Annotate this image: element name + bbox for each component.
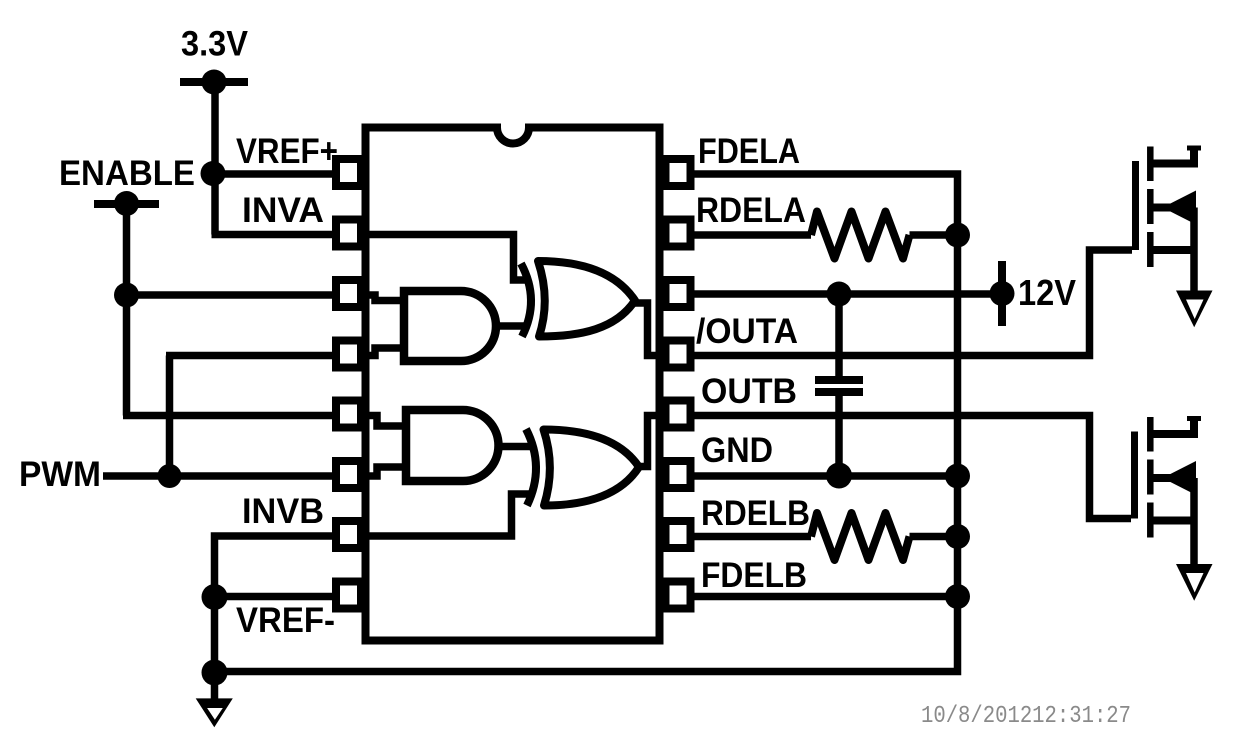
- pin 9 FDELB: [666, 582, 691, 609]
- resistor RDELB: [811, 513, 910, 560]
- wire FDELB row: [693, 593, 958, 601]
- svg-text:INVA: INVA: [242, 191, 324, 230]
- capacitor C1 top stem: [835, 294, 843, 376]
- transistor Q1 drain stub: [1150, 147, 1194, 164]
- transistor Q2 gate bar: [1131, 432, 1138, 519]
- node GND bus junction: [945, 464, 970, 489]
- pin 4: [336, 341, 361, 368]
- pin 14 12V: [666, 280, 691, 307]
- pin 15 RDELA: [666, 220, 691, 247]
- wire INVB to left rail: [215, 536, 334, 600]
- node 3.3V flag dot: [202, 70, 227, 95]
- 3.3V power flag bar: [180, 78, 248, 86]
- pin 7 INVB: [336, 521, 361, 548]
- transistor Q2 source stub: [1150, 517, 1198, 525]
- svg-text:FDELA: FDELA: [698, 132, 800, 171]
- pin 8 VREF-: [336, 582, 361, 609]
- resistor RDELA: [811, 212, 910, 259]
- node RDELA bus junction: [945, 223, 970, 248]
- svg-text:VREF-: VREF-: [236, 601, 335, 640]
- pin 6: [336, 461, 361, 488]
- wire GND row: [693, 472, 958, 480]
- wire 3.3V stem to VREF+ and INVA: [213, 82, 333, 235]
- node 12V flag dot: [990, 281, 1015, 306]
- wire pin6 jog to AND-B input2: [362, 467, 404, 476]
- node VREF- junction: [202, 584, 228, 610]
- xor-gate B body: [544, 430, 640, 506]
- wire XOR-A output to /OUTA pin: [632, 303, 662, 356]
- wire OUTB to M2 gate: [693, 416, 1131, 519]
- wire pin3 jog to AND-A input1: [362, 295, 402, 301]
- and-gate A: [404, 291, 496, 361]
- pin 12 OUTB: [666, 401, 691, 428]
- svg-text:RDELA: RDELA: [696, 191, 806, 230]
- transistor Q1 drain tick: [1187, 146, 1201, 151]
- xor-gate A input arc: [521, 264, 531, 337]
- pin 10 RDELB: [666, 521, 691, 548]
- wire INVA from stem corner: [212, 231, 334, 239]
- pin 11 GND: [666, 461, 691, 488]
- transistor Q2 drain stub: [1150, 418, 1194, 435]
- svg-text:GND: GND: [701, 431, 773, 470]
- pin 16 FDELA: [666, 159, 691, 186]
- node ENABLE pin3 junction: [114, 283, 139, 308]
- ENABLE power flag bar: [94, 200, 159, 208]
- wire PWM lead to pin6: [103, 472, 333, 480]
- transistor Q2 body arrow: [1163, 461, 1197, 495]
- wire 12V row from pin11: [693, 290, 1002, 298]
- node bottom rail junction: [202, 660, 228, 686]
- wire pin5 jog to AND-B input1: [362, 416, 404, 427]
- transistor Q1 body stub: [1150, 204, 1196, 212]
- xor-gate B input arc: [526, 429, 536, 506]
- wire INVB internal to XOR-B bottom input: [364, 494, 532, 536]
- node RDELB bus junction: [945, 524, 970, 549]
- pin squares: [336, 159, 691, 609]
- IC U1 outline with notch: [366, 128, 660, 641]
- wire /OUTA to M1 gate: [693, 250, 1132, 356]
- svg-text:/OUTA: /OUTA: [696, 312, 798, 351]
- svg-text:12V: 12V: [1018, 272, 1076, 313]
- wire ENABLE vertical to pin3 and pin5: [123, 204, 333, 416]
- node cap GND junction: [826, 463, 852, 489]
- wire AND-A output: [494, 322, 528, 330]
- pin 2 INVA: [336, 220, 361, 247]
- svg-text:10/8/201212:31:27: 10/8/201212:31:27: [921, 703, 1131, 730]
- ground symbol bottom-left: [196, 698, 233, 727]
- ground symbol Q2: [1176, 564, 1213, 601]
- wire INVA internal to XOR-A top input: [364, 235, 530, 281]
- transistor Q1 body arrow: [1163, 191, 1197, 225]
- pin 1 VREF+: [336, 159, 361, 186]
- transistor Q1 right vertical: [1190, 208, 1198, 295]
- pin 3: [336, 280, 361, 307]
- transistor Q1 channel dashes: [1147, 147, 1154, 268]
- wire XOR-B output to OUTB pin: [636, 416, 662, 467]
- svg-text:INVB: INVB: [242, 492, 324, 531]
- node VREF+ junction: [201, 161, 226, 186]
- capacitor C1 bottom stem: [835, 396, 843, 476]
- pin 13 /OUTA: [666, 341, 691, 368]
- transistor Q1 gate bar: [1132, 161, 1139, 250]
- wire RDELB to resistor: [693, 533, 958, 541]
- ground symbol Q1: [1176, 291, 1213, 328]
- capacitor C1 plates: [815, 380, 863, 392]
- wire AND-B output: [496, 443, 536, 451]
- node FDELB bus junction: [945, 584, 970, 609]
- wire RDELA to resistor: [693, 231, 958, 239]
- xor-gate A body: [538, 261, 635, 337]
- wire PWM vertical to pin4: [166, 356, 333, 477]
- svg-text:3.3V: 3.3V: [181, 25, 249, 64]
- and-gate B: [406, 410, 499, 481]
- svg-text:ENABLE: ENABLE: [59, 154, 195, 193]
- transistor Q2 drain tick: [1187, 416, 1201, 421]
- node 12V cap junction: [827, 282, 852, 307]
- svg-text:VREF+: VREF+: [236, 132, 338, 171]
- transistor Q2 channel dashes: [1147, 417, 1154, 538]
- svg-text:PWM: PWM: [19, 455, 101, 494]
- transistor Q2 body stub: [1150, 474, 1196, 482]
- 12V power flag bar: [998, 261, 1006, 326]
- svg-text:FDELB: FDELB: [701, 556, 807, 595]
- transistor Q1 source stub: [1150, 246, 1198, 254]
- wire left rail down to ground: [211, 597, 219, 702]
- node ENABLE flag dot: [114, 191, 139, 216]
- node PWM junction: [158, 464, 182, 488]
- wire pin4 jog to AND-A input2: [362, 348, 402, 356]
- transistor Q2 right vertical: [1190, 478, 1198, 568]
- wire FDELA to right bus and bottom rail: [212, 174, 958, 672]
- svg-text:OUTB: OUTB: [701, 372, 797, 411]
- wire VREF- to left rail: [215, 593, 334, 601]
- pin 5: [336, 401, 361, 428]
- svg-text:RDELB: RDELB: [701, 494, 810, 533]
